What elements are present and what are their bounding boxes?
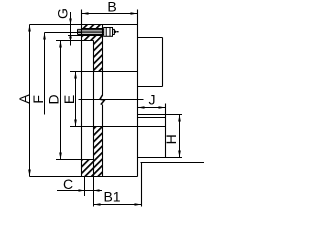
svg-text:E: E [61,95,77,104]
svg-text:F: F [30,95,46,104]
svg-text:D: D [46,94,62,104]
svg-text:B: B [107,0,116,15]
svg-text:J: J [149,92,156,108]
svg-text:G: G [55,8,71,19]
svg-text:B1: B1 [103,189,120,205]
svg-text:H: H [163,134,179,144]
svg-text:C: C [63,176,73,192]
